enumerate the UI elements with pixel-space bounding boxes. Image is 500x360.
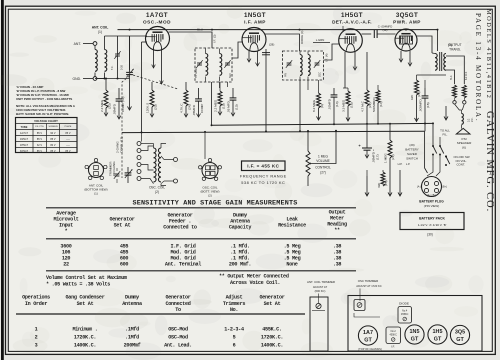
speaker SP1 hum coil	[453, 85, 457, 98]
wire V4 top feed	[437, 30, 439, 51]
svg-text:OSC-Mod: OSC-Mod	[168, 335, 188, 341]
resistor R26 620 ohm	[415, 80, 419, 95]
resistor R9 250M	[317, 93, 321, 108]
svg-text:GT: GT	[434, 337, 442, 343]
wire gang to bus	[129, 84, 131, 110]
IF T1 secondary trimmer	[225, 62, 230, 64]
tube V1 1A7GT envelope	[146, 27, 170, 51]
svg-text:Set At: Set At	[77, 301, 94, 307]
svg-text:Volume Control Set at Maximum: Volume Control Set at Maximum	[46, 275, 127, 281]
IF transformer T2 shield box	[283, 51, 324, 80]
svg-text:I.F. (3): I.F. (3)	[213, 34, 217, 43]
svg-text:ANT. COIL TRIMMER: ANT. COIL TRIMMER	[307, 280, 335, 284]
svg-text:ANT. COIL: ANT. COIL	[92, 26, 109, 30]
svg-text:-----: -----	[66, 144, 70, 147]
table2 header rule	[16, 313, 305, 315]
svg-text:CONT.: CONT.	[457, 163, 466, 167]
trimmer C-ant on gang	[115, 53, 120, 55]
IF unit block	[386, 327, 401, 344]
svg-text:V.C.: V.C.	[471, 117, 474, 122]
svg-text:Antenna: Antenna	[122, 301, 142, 307]
svg-text:To: To	[175, 307, 181, 313]
svg-text:(17): (17)	[376, 154, 380, 160]
svg-text:1A7: 1A7	[363, 330, 373, 336]
svg-text:(19): (19)	[222, 103, 226, 109]
svg-text:80 V: 80 V	[50, 144, 55, 147]
svg-text:GT: GT	[364, 338, 372, 344]
svg-text:OSC-Mod: OSC-Mod	[168, 327, 188, 333]
svg-text:90 V: 90 V	[50, 132, 55, 135]
svg-text:ANT.: ANT.	[74, 42, 81, 46]
svg-text:.005MFD: .005MFD	[419, 99, 423, 112]
svg-text:.05 MFD: .05 MFD	[227, 100, 231, 113]
svg-text:3.3 MEG: 3.3 MEG	[342, 99, 346, 112]
svg-text:UNIT PWR OUTPUT - 1000 MILLIWA: UNIT PWR OUTPUT - 1000 MILLIWATTS	[16, 97, 72, 101]
resistor R22 4.7M.C	[365, 90, 369, 106]
svg-text:TRANS.: TRANS.	[449, 48, 461, 52]
svg-text:.01MFD: .01MFD	[328, 98, 332, 110]
svg-text:500MMFD: 500MMFD	[372, 97, 376, 112]
tube V4 3Q5GT envelope	[395, 29, 417, 51]
battery pack box B30	[400, 213, 464, 230]
osc trimmer symbol	[354, 300, 365, 311]
svg-text:FREQUENCY RANGE: FREQUENCY RANGE	[240, 174, 287, 179]
svg-text:DIODE: DIODE	[399, 302, 409, 306]
svg-text:(26): (26)	[417, 91, 421, 97]
svg-text:(9): (9)	[320, 104, 324, 108]
svg-text:Ant. Lead.: Ant. Lead.	[164, 343, 192, 349]
svg-text:ADJUST AT 1720 KC: ADJUST AT 1720 KC	[356, 284, 381, 288]
resistor R10 500MMFD	[376, 90, 380, 103]
gang condenser C1b	[127, 167, 129, 173]
svg-text:2.2 MEG: 2.2 MEG	[100, 99, 104, 112]
wire B- rail	[122, 131, 425, 132]
resistor R18 3.3 MEG	[346, 91, 350, 106]
potentiometer R27 volume	[306, 151, 310, 176]
svg-text:(10): (10)	[379, 101, 383, 107]
svg-text:(PIN VIEW): (PIN VIEW)	[424, 204, 440, 208]
svg-text:Operations: Operations	[22, 295, 50, 301]
svg-text:TUBE: TUBE	[21, 126, 28, 129]
svg-text:I.F. AMP: I.F. AMP	[244, 20, 266, 25]
svg-text:(27): (27)	[320, 171, 326, 175]
svg-text:6: 6	[233, 343, 236, 349]
battery plug pin view	[422, 177, 442, 197]
IF T2 secondary coil	[308, 55, 310, 76]
svg-text:(28): (28)	[269, 43, 274, 47]
IF T1 primary trimmer	[197, 62, 202, 64]
wire T2 top to V3	[313, 42, 330, 44]
battery saver switch S29	[432, 145, 434, 147]
voltage chart table	[16, 118, 78, 153]
svg-text:FIL.: FIL.	[443, 133, 448, 137]
wire V3 plate coupling	[362, 33, 372, 35]
junction dots rail2	[141, 131, 143, 133]
wire V2 screen drop	[265, 49, 267, 131]
svg-text:* .05 Watts = .38 Volts: * .05 Watts = .38 Volts	[46, 281, 110, 287]
scan mottling texture	[210, 195, 244, 206]
IF T1 primary coil	[206, 54, 208, 76]
svg-text:*: *	[65, 229, 68, 235]
wire V1 plate to IF1	[169, 32, 213, 48]
svg-text:1N5: 1N5	[410, 329, 420, 335]
svg-text:Dummy: Dummy	[125, 295, 139, 301]
svg-text:(13): (13)	[235, 104, 239, 110]
svg-text:PAGE 13-4 MOTOROLA.: PAGE 13-4 MOTOROLA.	[474, 13, 482, 122]
svg-text:8.2 MEG: 8.2 MEG	[312, 99, 316, 112]
svg-text:** Output Meter Connected: ** Output Meter Connected	[219, 274, 289, 280]
svg-text:1H5: 1H5	[433, 329, 443, 335]
svg-text:(23): (23)	[154, 104, 158, 110]
svg-text:1A7GT: 1A7GT	[20, 132, 28, 135]
wire T1 primary return	[211, 82, 213, 125]
svg-text:85 V: 85 V	[37, 138, 42, 141]
svg-text:32 V: 32 V	[37, 144, 42, 147]
wire V2 cathode	[248, 51, 250, 62]
capacitor C15 .005MFD	[424, 88, 426, 96]
svg-text:(TOP OF CHASSIS): (TOP OF CHASSIS)	[358, 347, 382, 351]
svg-text:(600 KC): (600 KC)	[315, 289, 326, 293]
svg-text:Minimum .: Minimum .	[72, 327, 97, 333]
capacitor C13 .05 MFD	[232, 88, 234, 98]
table1 top rule	[46, 207, 356, 209]
layout tube 1N5GT	[405, 325, 424, 344]
svg-text:(25): (25)	[384, 180, 388, 186]
svg-text:1-2-3-4: 1-2-3-4	[224, 327, 244, 333]
wire T1 to V2	[232, 42, 243, 58]
tube V3 1H5GT envelope	[339, 29, 363, 53]
wire A+ filament top bus	[118, 29, 438, 31]
osc coil T4 windings	[154, 148, 157, 182]
svg-text:In Order: In Order	[25, 301, 47, 307]
svg-text:BATTERY PACK: BATTERY PACK	[419, 217, 445, 221]
svg-text:VOLUME: VOLUME	[316, 159, 329, 163]
svg-text:**: **	[334, 228, 340, 234]
wire V3 cathode drops	[344, 52, 346, 88]
resistor R21 1 MEG	[388, 140, 392, 158]
svg-text:L.GRN: L.GRN	[316, 38, 325, 42]
IF T1 secondary coil	[220, 54, 222, 76]
svg-text:4.7K.C: 4.7K.C	[180, 103, 184, 113]
svg-text:(21): (21)	[391, 154, 395, 160]
IF transformer T1 shield box	[195, 48, 232, 82]
svg-text:(1): (1)	[98, 30, 102, 34]
antenna coil L1 primary	[95, 50, 97, 72]
osc coil T4 terminals	[137, 142, 141, 146]
svg-text:620: 620	[410, 95, 414, 100]
svg-text:Connected to: Connected to	[163, 225, 197, 231]
leader lines trimmers	[318, 294, 320, 304]
svg-text:1H5GT: 1H5GT	[20, 144, 29, 147]
scan edge bar	[1, 0, 4, 360]
svg-text:85 V: 85 V	[37, 132, 42, 135]
wire V3 diode plate top	[342, 26, 344, 31]
wire V2 plate to IF2	[265, 34, 300, 51]
junction dots rail1	[211, 124, 213, 126]
svg-text:2.2 MEG: 2.2 MEG	[214, 99, 218, 112]
svg-text:85 V: 85 V	[50, 138, 55, 141]
svg-text:22: 22	[63, 262, 69, 268]
svg-text:.38: .38	[333, 262, 342, 268]
svg-text:4.7 M.C: 4.7 M.C	[361, 100, 365, 112]
svg-text:3Q5: 3Q5	[455, 330, 465, 336]
output transformer T3	[435, 54, 437, 71]
svg-text:(12): (12)	[383, 28, 388, 32]
svg-text:(6): (6)	[462, 145, 466, 149]
svg-text:(2): (2)	[208, 194, 212, 198]
svg-text:(18): (18)	[349, 102, 353, 108]
svg-text:OSC TRIMMER: OSC TRIMMER	[358, 279, 379, 283]
table1 header rule	[46, 238, 356, 240]
svg-text:1A7GT: 1A7GT	[146, 12, 168, 19]
svg-text:OSC.-MOD: OSC.-MOD	[143, 20, 171, 25]
svg-text:No.: No.	[230, 307, 238, 313]
svg-text:GALVIN MFG. CO.: GALVIN MFG. CO.	[484, 111, 495, 212]
wire T1 secondary to V2 grid	[227, 82, 229, 87]
svg-text:COMP: COMP	[200, 104, 204, 113]
capacitor C17 .05MFD electrolytic	[366, 124, 368, 148]
svg-text:PWR. AMP: PWR. AMP	[393, 20, 421, 25]
IF T2 secondary trimmer	[315, 62, 320, 64]
antenna coil L1 secondary	[105, 50, 107, 72]
wire V1 grid drop	[142, 41, 148, 43]
wire OT secondary to speaker	[446, 56, 464, 84]
svg-text:(20): (20)	[108, 103, 112, 109]
svg-text:I.F. (4): I.F. (4)	[325, 53, 329, 62]
svg-text:T.C.: T.C.	[111, 65, 114, 70]
svg-text:SEC: SEC	[229, 73, 232, 78]
wire T2 to diode	[307, 80, 309, 90]
svg-text:GND.: GND.	[73, 77, 82, 81]
dashed gang link	[122, 76, 130, 178]
chassis side panel	[310, 297, 328, 351]
on-off switch on volume	[445, 156, 447, 158]
svg-text:GT: GT	[456, 337, 464, 343]
svg-text:.05MFD: .05MFD	[192, 104, 196, 116]
layout tube 1A7GT	[358, 326, 377, 345]
svg-text:455KC: 455KC	[390, 334, 398, 337]
chassis top view box	[348, 296, 482, 352]
capacitor C11 .05MFD COMP	[118, 88, 120, 99]
svg-text:(2): (2)	[155, 190, 159, 194]
resistor R19 2.2 MEG	[218, 91, 222, 106]
wire V4 plate to OT	[417, 36, 433, 53]
svg-text:(B+): (B+)	[442, 186, 447, 189]
svg-text:455K.C.: 455K.C.	[262, 327, 282, 333]
svg-text:Set At: Set At	[264, 301, 281, 307]
capacitor C12 .004MFD coupling	[373, 30, 375, 38]
tube V2 1N5GT envelope	[242, 28, 266, 52]
layout tube 3Q5GT	[450, 325, 469, 344]
svg-text:1N5GT: 1N5GT	[20, 138, 29, 141]
svg-text:(14): (14)	[335, 101, 339, 107]
svg-text:.05MFD: .05MFD	[113, 103, 117, 115]
svg-text:Set At: Set At	[114, 223, 131, 229]
capacitor C28 screen bypass	[262, 52, 270, 54]
svg-text:85 V: 85 V	[65, 150, 70, 153]
table1 bottom rule	[46, 270, 356, 272]
resistor R23 120K.S	[150, 90, 154, 107]
speaker SP1 voice coil	[455, 104, 462, 114]
wire to battery plug	[427, 168, 433, 176]
socket ant coil bottom view	[89, 163, 104, 178]
svg-text:(A-): (A-)	[417, 186, 421, 189]
wire osc section	[174, 158, 178, 162]
wire A- rail	[212, 123, 434, 125]
svg-text:(30): (30)	[427, 233, 433, 237]
svg-text:Generator: Generator	[165, 295, 190, 301]
speaker SP1 voice winding	[462, 85, 466, 98]
svg-text:(15): (15)	[426, 102, 430, 108]
svg-text:3Q5GT: 3Q5GT	[396, 12, 418, 19]
svg-text:5: 5	[233, 335, 236, 341]
svg-text:(29): (29)	[409, 143, 414, 147]
svg-text:8.2 M.S: 8.2 M.S	[465, 71, 468, 80]
speaker SP1 cone	[461, 125, 463, 129]
svg-text:(24): (24)	[188, 104, 192, 110]
IF T2 primary coil	[300, 55, 302, 76]
svg-text:1 MEG: 1 MEG	[384, 153, 388, 163]
svg-text:L.P.: L.P.	[406, 162, 411, 166]
resistor R25 390 ohm	[381, 172, 385, 186]
svg-text:85 V: 85 V	[37, 150, 42, 153]
svg-text:MODELS 41B11,41B12: MODELS 41B11,41B12	[485, 9, 492, 99]
resistor R20 2.2 MEG	[104, 90, 108, 108]
svg-text:1N5GT: 1N5GT	[244, 12, 266, 19]
wire ant secondary to grid	[105, 35, 148, 37]
svg-text:SWITCH: SWITCH	[406, 157, 418, 161]
svg-text:Across Voice Coil.: Across Voice Coil.	[230, 280, 280, 286]
resistor R24 4.7K.C	[184, 90, 188, 106]
svg-text:Ant. Terminal: Ant. Terminal	[165, 262, 201, 268]
svg-text:I.F.: I.F.	[391, 345, 395, 349]
svg-text:CONTROL: CONTROL	[315, 166, 331, 170]
gang tuning capacitor C1a	[129, 36, 131, 72]
diode unit block	[398, 307, 412, 324]
socket osc coil bottom view	[202, 163, 218, 179]
svg-text:1400K.C.: 1400K.C.	[74, 343, 96, 349]
svg-text:(A+) (B-): (A+) (B-)	[427, 194, 436, 197]
capacitor C11A .05MFD COMP	[198, 88, 200, 99]
trimmer on gang bottom	[115, 173, 120, 175]
svg-text:3Q5GT: 3Q5GT	[20, 150, 29, 153]
svg-text:H.P.: H.P.	[398, 162, 403, 166]
IF T2 primary trimmer	[287, 62, 292, 64]
svg-text:BLK: BLK	[450, 75, 453, 80]
svg-text:TO GANG: TO GANG	[195, 67, 198, 78]
wire gnd row	[97, 78, 130, 80]
svg-text:ADJUST AT: ADJUST AT	[313, 285, 328, 289]
svg-text:COND. (17): COND. (17)	[120, 137, 124, 153]
layout tube 1H5GT	[428, 325, 447, 344]
svg-text:390: 390	[377, 183, 381, 188]
svg-text:(1): (1)	[94, 192, 98, 196]
svg-text:120K.S: 120K.S	[146, 103, 150, 113]
ground arrows battery area	[366, 176, 368, 196]
capacitor C14 .01MFD	[333, 88, 335, 95]
IF frequency callout box	[242, 161, 286, 171]
ant trimmer symbol	[316, 303, 321, 308]
wire V4 grid resistor leads	[400, 51, 402, 62]
wire V1 cathode leads	[153, 49, 155, 69]
svg-text:1720K.C.: 1720K.C.	[74, 335, 96, 341]
